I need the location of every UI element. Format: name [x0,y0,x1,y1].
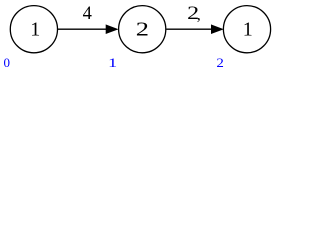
svg-text:2: 2 [136,19,149,41]
svg-text:,: , [197,6,201,23]
svg-text:0: 0 [3,55,10,70]
svg-text:1: 1 [243,19,253,41]
svg-text:2: 2 [216,55,224,70]
svg-text:1: 1 [108,55,117,70]
svg-text:1: 1 [30,19,40,41]
svg-text:4: 4 [83,4,92,24]
